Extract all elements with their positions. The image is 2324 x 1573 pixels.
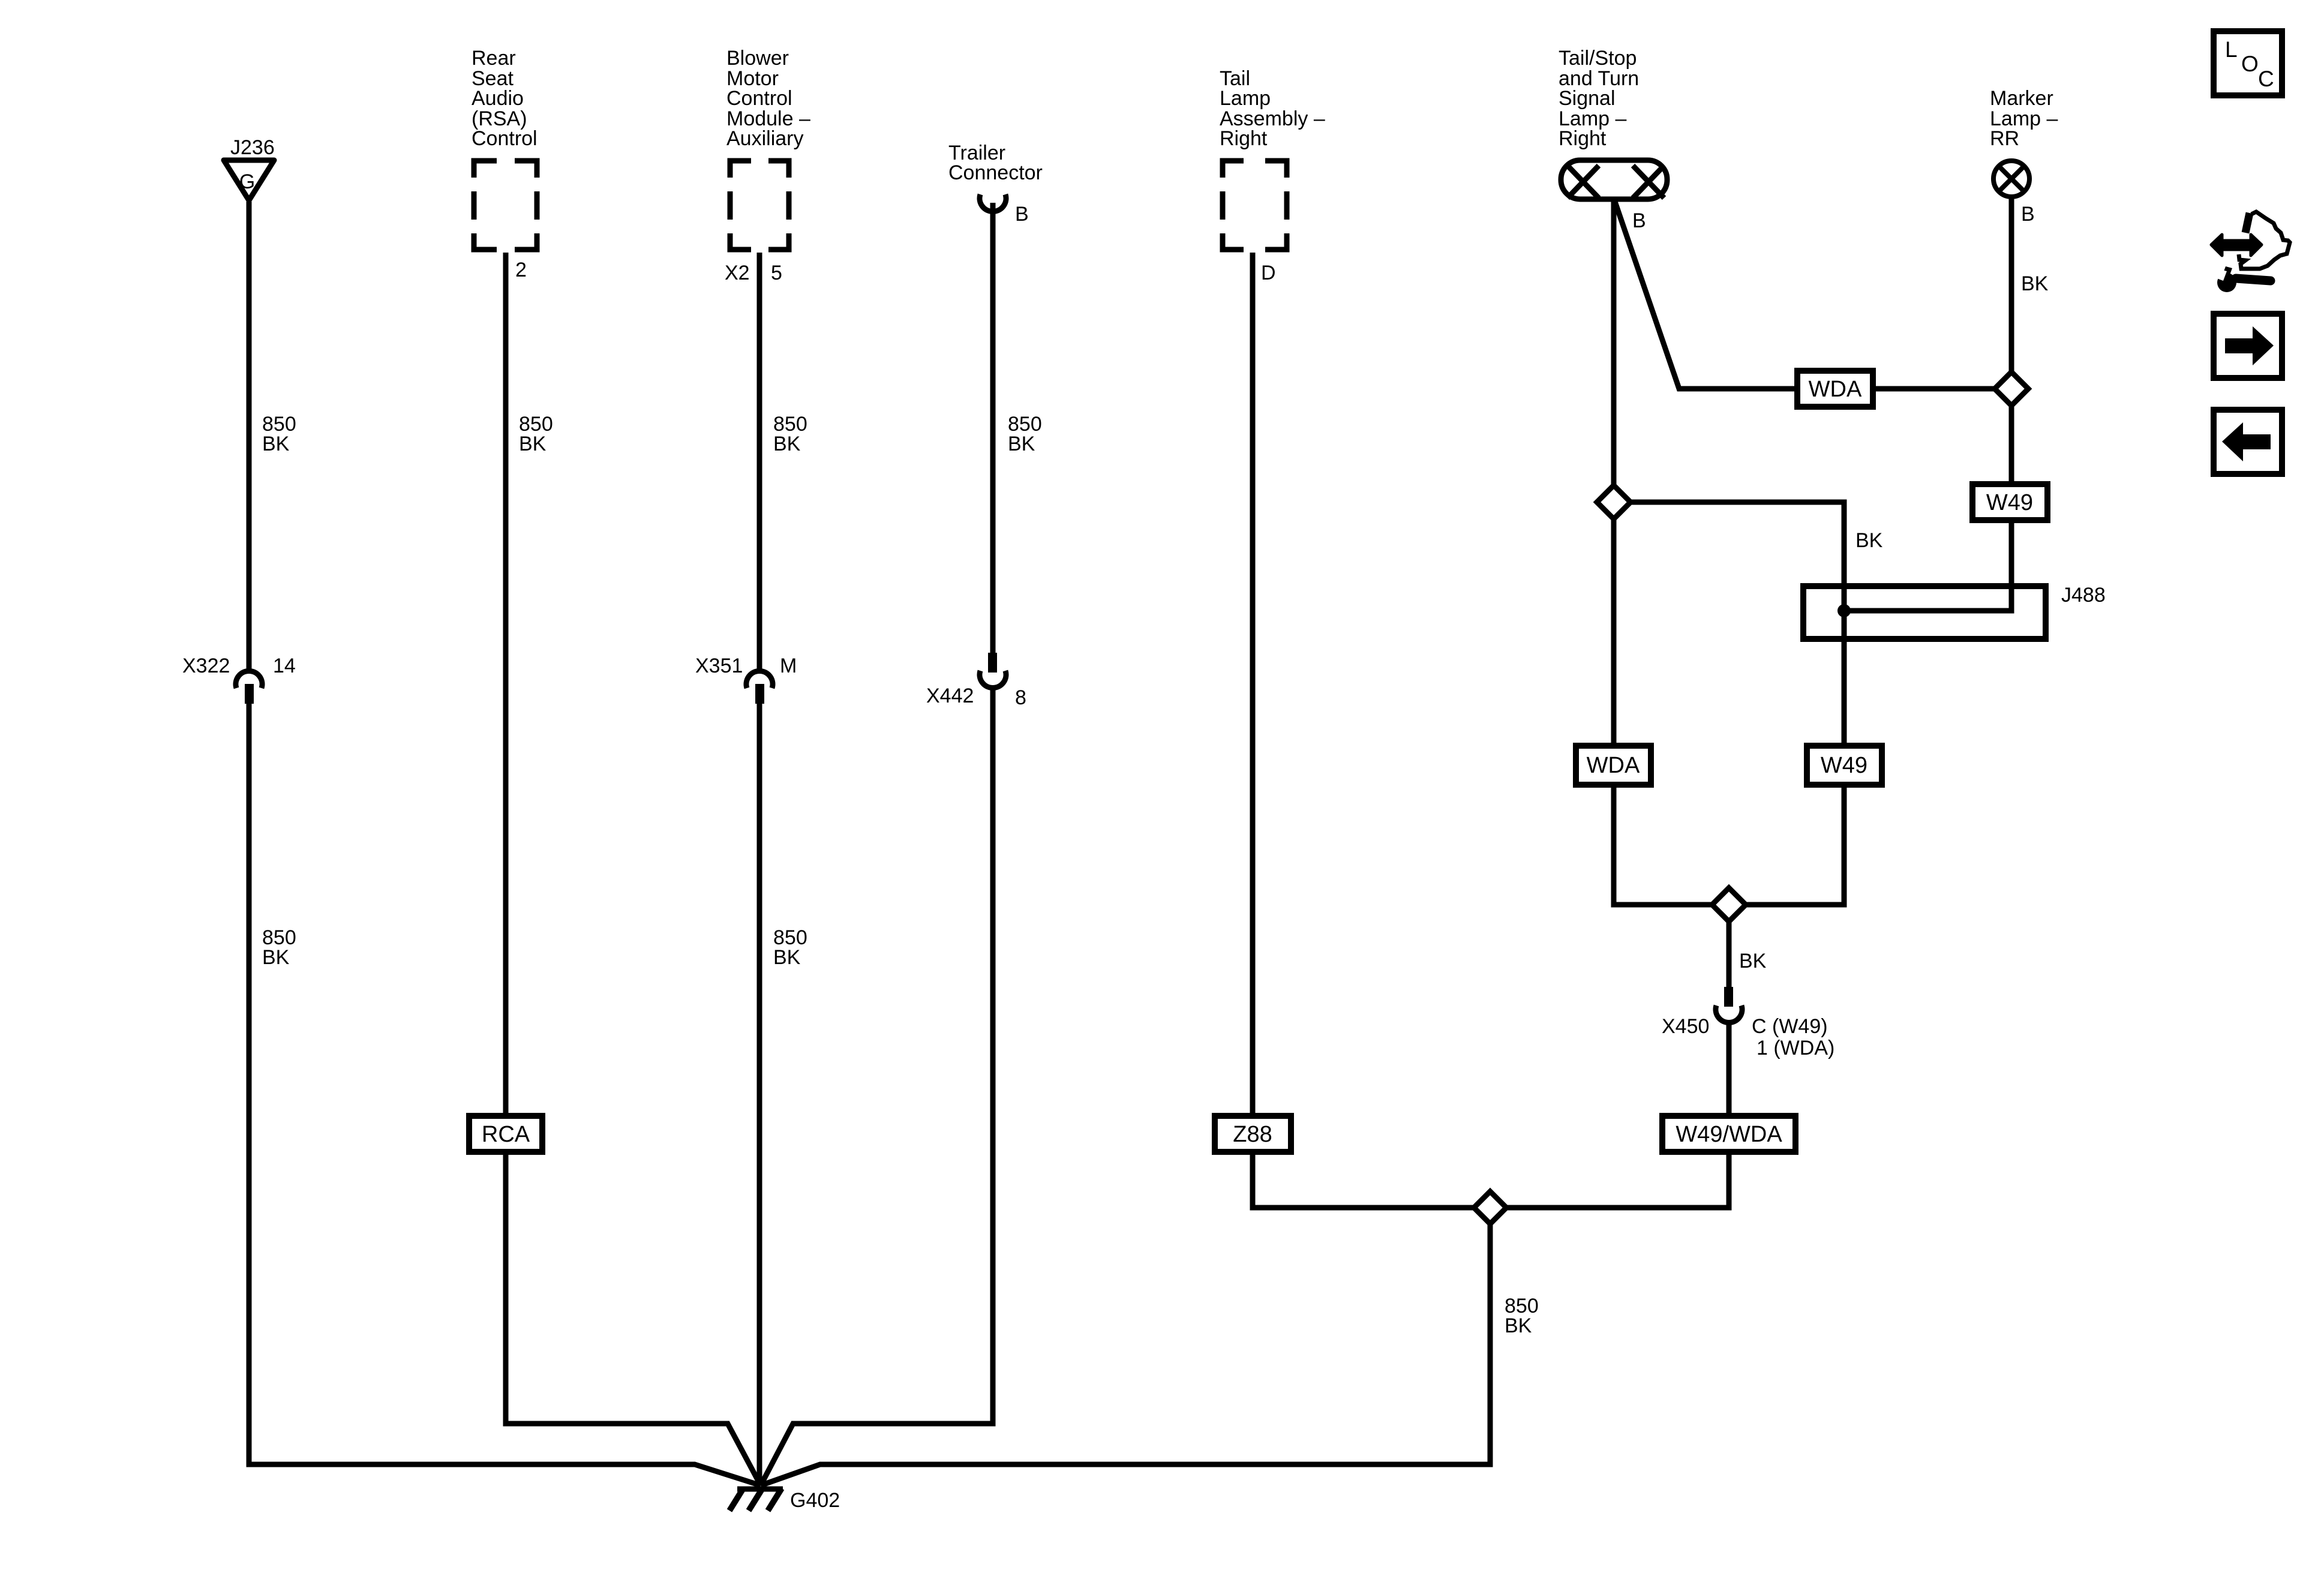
svg-text:Audio: Audio <box>472 87 524 110</box>
svg-text:Tail/Stop: Tail/Stop <box>1559 47 1637 70</box>
svg-text:Control: Control <box>726 87 792 110</box>
splice box WDA upper <box>1797 371 1873 407</box>
splice pack J488 box <box>1803 586 2046 639</box>
wire diamond to WDA splice box <box>1611 519 1617 744</box>
svg-text:BK: BK <box>1008 433 1035 455</box>
connector X351 arc <box>746 671 773 688</box>
svg-text:Blower: Blower <box>726 47 789 70</box>
wire RCA splice to G402 ground <box>506 1154 761 1485</box>
wire Blower Motor X351 to G402 ground 850 BK <box>757 703 762 1485</box>
ground G402 hash stroke 1 <box>729 1488 743 1511</box>
svg-text:BK: BK <box>1505 1314 1532 1337</box>
wire W49/WDA splice to bottom junction diamond <box>1506 1154 1729 1208</box>
wire Trailer Connector pin B upper segment 850 BK <box>990 203 996 654</box>
splice box W49 middle <box>1807 746 1882 785</box>
svg-text:RR: RR <box>1990 127 2019 150</box>
svg-text:B: B <box>2021 203 2035 226</box>
splice box RCA <box>469 1116 542 1152</box>
svg-text:14: 14 <box>273 655 296 677</box>
ground G402 symbol bar <box>737 1487 783 1492</box>
splice box W49 upper <box>1972 484 2047 520</box>
svg-text:G: G <box>239 170 255 193</box>
svg-text:RCA: RCA <box>482 1122 530 1147</box>
wire X450 to W49/WDA splice <box>1727 1022 1732 1114</box>
svg-text:Lamp: Lamp <box>1220 87 1271 110</box>
icon service tool wrench handle <box>2236 278 2271 281</box>
ground G402 hash stroke 3 <box>768 1488 782 1511</box>
wire W49 into J488 splice pack <box>1850 522 2011 611</box>
lamp Marker Lamp RR circle <box>1993 161 2029 197</box>
ground G402 hash stroke 2 <box>749 1488 762 1511</box>
legend left arrow box <box>2214 410 2282 474</box>
svg-text:1 (WDA): 1 (WDA) <box>1756 1037 1834 1059</box>
svg-text:C: C <box>2258 67 2274 91</box>
svg-text:BK: BK <box>773 946 801 969</box>
connector X442 cup arc <box>980 671 1006 688</box>
wire Marker Lamp pin B to diamond BK <box>2009 199 2014 372</box>
icon service tool wrench head <box>2217 273 2236 292</box>
svg-text:X2: X2 <box>725 262 750 284</box>
connector X322 pin terminal <box>245 684 254 704</box>
svg-text:BK: BK <box>1855 529 1883 552</box>
junction dot inside J488 <box>1837 604 1851 617</box>
wire Blower Motor Control Module pin X2-5 upper segment 850 BK <box>757 253 762 671</box>
svg-text:Control: Control <box>472 127 538 150</box>
wire bottom diamond to X450 connector BK <box>1727 921 1732 988</box>
svg-text:J488: J488 <box>2061 584 2106 607</box>
svg-text:W49/WDA: W49/WDA <box>1676 1122 1782 1147</box>
ground symbol J236 triangle G <box>224 160 274 200</box>
svg-text:BK: BK <box>1739 950 1767 972</box>
component Tail Lamp Assembly Right dashed box <box>1223 161 1287 250</box>
svg-text:Right: Right <box>1559 127 1607 150</box>
svg-text:Right: Right <box>1220 127 1268 150</box>
wire Trailer Connector X442 to G402 ground 850 BK <box>761 688 993 1485</box>
splice box W49/WDA <box>1662 1116 1795 1152</box>
icon service tool outline shape <box>2239 212 2290 269</box>
junction diamond on marker lamp wire <box>1995 372 2028 406</box>
component Rear Seat Audio RSA Control dashed box <box>474 161 537 250</box>
svg-text:Signal: Signal <box>1559 87 1616 110</box>
svg-text:W49: W49 <box>1986 490 2033 515</box>
junction diamond above X450 <box>1712 888 1746 921</box>
legend right arrow glyph <box>2225 326 2274 365</box>
connector X351 pin terminal <box>755 684 764 704</box>
svg-text:BK: BK <box>2021 272 2049 295</box>
lamp Tail/Stop and Turn Signal Lamp Right stadium body <box>1561 160 1667 199</box>
svg-text:Marker: Marker <box>1990 87 2053 110</box>
svg-text:J236: J236 <box>230 136 275 159</box>
connector X322 arc <box>236 671 262 688</box>
connector X450 pin terminal <box>1724 987 1733 1007</box>
svg-text:G402: G402 <box>790 1489 840 1512</box>
legend right arrow box <box>2214 314 2282 378</box>
wire W49 splice to bottom diamond <box>1746 786 1844 905</box>
lamp element X left <box>1568 166 1599 198</box>
svg-text:BK: BK <box>773 433 801 455</box>
wire bottom junction diamond to G402 ground 850 BK <box>761 1224 1490 1485</box>
legend left arrow glyph <box>2222 422 2271 461</box>
svg-text:Auxiliary: Auxiliary <box>726 127 803 150</box>
svg-text:M: M <box>780 655 797 677</box>
wire Tail/Stop lamp diagonal branch to WDA <box>1615 202 1794 389</box>
junction diamond on tail/stop lamp wire <box>1597 485 1631 519</box>
splice box WDA middle <box>1576 746 1651 785</box>
svg-text:W49: W49 <box>1821 753 1867 778</box>
icon service tool double arrow <box>2211 235 2262 256</box>
connector X442 pin terminal <box>988 653 997 673</box>
component Blower Motor Control Module Auxiliary dashed box <box>730 161 789 250</box>
connector Trailer Connector cup <box>980 194 1006 212</box>
icon service tool wrench jaw notch <box>2214 269 2227 281</box>
icon service tool wrench jaw nub <box>2223 266 2232 275</box>
svg-text:2: 2 <box>515 259 527 281</box>
wire J236 ground wire lower segment 850 BK to G402 <box>249 703 761 1485</box>
svg-text:L: L <box>2225 37 2238 62</box>
svg-text:WDA: WDA <box>1809 377 1862 402</box>
svg-text:8: 8 <box>1015 686 1026 709</box>
wire WDA to marker lamp diamond <box>1876 386 1995 392</box>
wire Z88 splice to bottom diamond junction <box>1253 1154 1474 1208</box>
wire Tail/Stop lamp pin B vertical to diamond <box>1611 202 1617 485</box>
icon service tool thick bar <box>2245 213 2250 233</box>
svg-text:X450: X450 <box>1662 1015 1709 1038</box>
svg-text:X351: X351 <box>695 655 743 677</box>
svg-text:C (W49): C (W49) <box>1752 1015 1828 1038</box>
svg-text:X322: X322 <box>182 655 230 677</box>
svg-text:BK: BK <box>519 433 547 455</box>
svg-text:5: 5 <box>771 262 782 284</box>
wire RSA control pin 2 to RCA splice 850 BK <box>503 253 509 1114</box>
wire Tail Lamp Assembly pin D to Z88 splice <box>1250 253 1256 1114</box>
wire J236 ground wire upper segment 850 BK <box>247 202 252 671</box>
legend LOC box <box>2214 31 2282 95</box>
splice box Z88 <box>1215 1116 1291 1152</box>
wire WDA splice to bottom diamond <box>1614 786 1712 905</box>
svg-text:B: B <box>1015 203 1029 226</box>
lamp element X right <box>1633 166 1664 198</box>
svg-text:B: B <box>1632 209 1646 232</box>
wire diamond to W49 splice box <box>2009 406 2014 482</box>
wire diamond branch right BK <box>1631 502 1844 744</box>
svg-text:O: O <box>2241 52 2259 76</box>
svg-text:BK: BK <box>262 433 290 455</box>
svg-text:Connector: Connector <box>948 161 1043 184</box>
svg-text:WDA: WDA <box>1587 753 1640 778</box>
connector X450 cup arc <box>1716 1005 1742 1023</box>
svg-text:D: D <box>1261 262 1276 284</box>
svg-text:X442: X442 <box>926 685 974 707</box>
lamp Marker Lamp RR X element <box>1999 166 2024 191</box>
svg-text:Z88: Z88 <box>1233 1122 1272 1147</box>
svg-text:BK: BK <box>262 946 290 969</box>
svg-text:Rear: Rear <box>472 47 516 70</box>
junction diamond bottom G402 branch <box>1474 1191 1506 1224</box>
